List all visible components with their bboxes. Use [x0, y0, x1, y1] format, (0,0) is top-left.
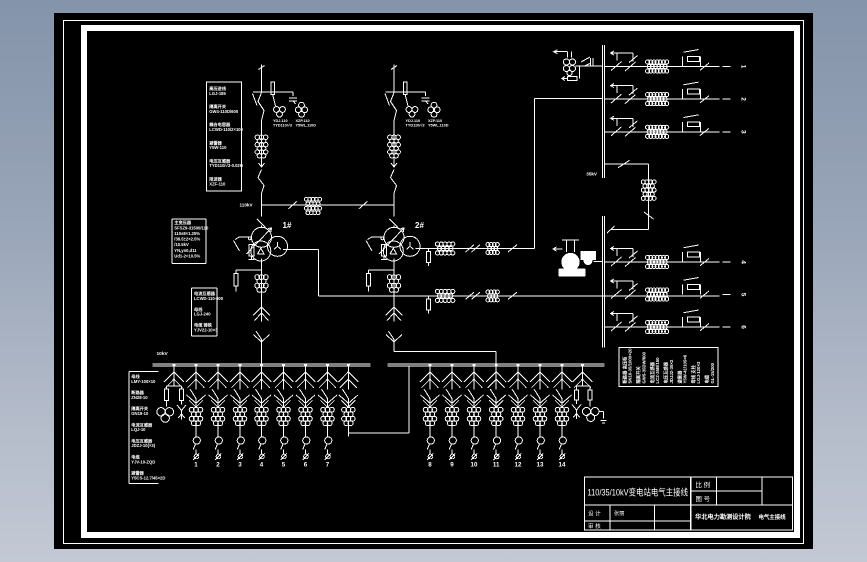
svg-text:2: 2	[216, 462, 220, 469]
svg-text:110/35/10kV变电站电气主接线: 110/35/10kV变电站电气主接线	[587, 487, 688, 498]
svg-text:TYD110/√3-0.02H: TYD110/√3-0.02H	[209, 163, 243, 168]
svg-text:1: 1	[739, 65, 746, 69]
svg-text:YJV-10-ZQD: YJV-10-ZQD	[131, 459, 155, 464]
svg-text:审 核: 审 核	[588, 522, 601, 530]
svg-text:GW5-35DW/600: GW5-35DW/600	[641, 351, 646, 383]
svg-text:5: 5	[739, 293, 746, 297]
svg-text:XZF-110: XZF-110	[209, 181, 226, 186]
svg-text:SN10-35/1000×20: SN10-35/1000×20	[627, 348, 632, 384]
svg-text:YDJ.110: YDJ.110	[273, 119, 288, 123]
svg-text:10kV: 10kV	[156, 351, 168, 357]
svg-text:/38.5±2×2.5%: /38.5±2×2.5%	[174, 237, 200, 242]
svg-text:JDJJ2-35×2: JDJJ2-35×2	[668, 359, 673, 383]
svg-text:LMY-100×10: LMY-100×10	[131, 379, 156, 384]
svg-text:Y5WL.110D: Y5WL.110D	[428, 123, 449, 127]
svg-text:35kV: 35kV	[586, 172, 598, 177]
svg-text:Y5WL.110D: Y5WL.110D	[295, 123, 316, 127]
svg-text:ZN28-10: ZN28-10	[131, 395, 148, 400]
svg-text:11: 11	[492, 462, 499, 469]
svg-text:YN,yn0,d11: YN,yn0,d11	[174, 248, 197, 253]
svg-text:10: 10	[470, 462, 477, 469]
svg-text:1: 1	[194, 462, 198, 469]
svg-text:LCZ-35B/150: LCZ-35B/150	[655, 357, 660, 384]
svg-text:TYD110/√3: TYD110/√3	[273, 123, 292, 127]
svg-text:LCWD-110-600: LCWD-110-600	[194, 296, 224, 301]
svg-text:2#: 2#	[415, 221, 424, 230]
svg-text:14: 14	[558, 462, 565, 469]
svg-text:YDJ.110: YDJ.110	[405, 119, 420, 123]
svg-text:XZP.110: XZP.110	[295, 119, 309, 123]
svg-text:JDZJ-10(×3): JDZJ-10(×3)	[131, 443, 155, 448]
svg-text:8: 8	[428, 462, 432, 469]
svg-text:6: 6	[739, 325, 746, 329]
svg-text:5: 5	[281, 462, 285, 469]
svg-text:7: 7	[325, 462, 329, 469]
svg-text:3: 3	[238, 462, 242, 469]
svg-text:LQJ-10: LQJ-10	[131, 427, 146, 432]
svg-text:Y5W-41/105×6: Y5W-41/105×6	[682, 354, 687, 383]
svg-text:9: 9	[450, 462, 454, 469]
svg-text:华北电力勘测设计院: 华北电力勘测设计院	[695, 513, 751, 521]
svg-text:LGJ-240: LGJ-240	[194, 312, 211, 317]
svg-text:4: 4	[259, 462, 263, 469]
svg-text:电气主接线: 电气主接线	[758, 513, 786, 521]
svg-text:Y5CS-12.7/45×2D: Y5CS-12.7/45×2D	[131, 475, 165, 480]
svg-text:LCWD-110/2×100: LCWD-110/2×100	[209, 127, 243, 132]
svg-text:13: 13	[536, 462, 543, 469]
svg-text:TYD110/√3: TYD110/√3	[405, 123, 424, 127]
svg-text:4: 4	[739, 260, 746, 264]
svg-text:Ud1-2=10.5%: Ud1-2=10.5%	[174, 253, 200, 258]
svg-text:12: 12	[514, 462, 521, 469]
svg-text:1#: 1#	[282, 221, 291, 230]
svg-text:GN19-10: GN19-10	[131, 411, 149, 416]
svg-text:2: 2	[739, 97, 746, 101]
svg-text:图 号: 图 号	[695, 495, 710, 503]
svg-text:Y5W-110: Y5W-110	[209, 145, 227, 150]
svg-text:SFSZ9-31500/110: SFSZ9-31500/110	[174, 225, 209, 230]
svg-text:110kV: 110kV	[239, 203, 253, 208]
svg-text:/10.5kV: /10.5kV	[174, 242, 189, 247]
svg-text:设 计: 设 计	[588, 510, 601, 518]
svg-text:LGJ-185: LGJ-185	[209, 91, 226, 96]
svg-text:GW4-110D/600: GW4-110D/600	[209, 109, 239, 114]
svg-text:YJV22-10×3: YJV22-10×3	[194, 327, 218, 332]
svg-text:3: 3	[739, 130, 746, 134]
svg-text:张丽: 张丽	[614, 509, 624, 517]
svg-text:GL-15/200: GL-15/200	[709, 362, 714, 383]
svg-text:110±8×1.25%: 110±8×1.25%	[174, 231, 200, 236]
svg-text:LGJ-120×3: LGJ-120×3	[696, 361, 701, 383]
svg-text:XZP.110: XZP.110	[428, 119, 442, 123]
svg-text:6: 6	[303, 462, 307, 469]
svg-text:比 例: 比 例	[695, 480, 710, 489]
